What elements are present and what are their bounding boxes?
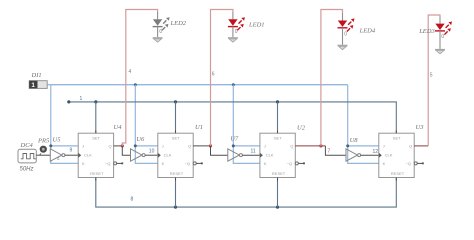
svg-text:RESET: RESET (90, 171, 104, 176)
wire: U1 Q output (net 5) (193, 145, 210, 147)
svg-text:K: K (82, 161, 85, 166)
flip-flop U1 (158, 124, 203, 181)
svg-text:CLK: CLK (164, 153, 172, 158)
svg-text:K: K (383, 161, 386, 166)
svg-text:DC4: DC4 (20, 142, 34, 149)
svg-text:50Hz: 50Hz (20, 166, 34, 172)
svg-text:CLK: CLK (266, 153, 274, 158)
svg-text:SET: SET (172, 136, 180, 141)
junction: bus A / stage-2 drop (134, 83, 137, 86)
wire: stage-4 K feed to U3 (348, 146, 379, 164)
wire: stage-1 J/K drop from bus A (50, 85, 52, 146)
wire: stage-4 J/K drop from bus A end (347, 85, 349, 146)
wire: DC4 to U5 input (net) (36, 154, 50, 156)
svg-text:~Q: ~Q (105, 161, 110, 166)
ground at LED3 (435, 50, 445, 54)
wire: stage-4 J feed to U3 (348, 145, 379, 147)
LED3 (on, red) (418, 17, 452, 49)
wire: bus A horizontal (J/K high rail) (51, 84, 348, 86)
wire: LED1 feed riser (net 6) (211, 10, 233, 146)
wire: stage-1 K feed to U4 (51, 146, 78, 164)
wire: stage-2 J feed to U1 (135, 145, 158, 147)
svg-text:0: 0 (344, 32, 347, 38)
junction: U1 Q / LED1 branch (209, 144, 212, 147)
svg-text:J: J (264, 144, 266, 149)
svg-text:J: J (162, 144, 164, 149)
wire: LED4 feed riser (321, 10, 343, 146)
svg-text:0: 0 (159, 29, 162, 35)
wire: RESET drop U2 (277, 178, 279, 208)
wire: stage-2 J/K drop from bus A (134, 85, 136, 146)
wire: U6 output to U1 CLK (net 10) (145, 154, 158, 156)
svg-text:0: 0 (441, 34, 444, 40)
wire: U2 Q step to U8 input (325, 146, 346, 155)
wire: U4 Q output (net 3) (114, 145, 123, 147)
svg-text:8: 8 (131, 197, 134, 203)
wire: SET drop to U1 (175, 102, 177, 133)
svg-text:RESET: RESET (272, 171, 286, 176)
wire: bottom RESET bus (net 8) (96, 178, 397, 208)
flip-flop U4 (78, 124, 123, 181)
junction: bottom bus / U1 RESET (174, 206, 177, 209)
svg-text:~Q: ~Q (406, 161, 411, 166)
svg-text:5: 5 (430, 73, 433, 79)
wire: stage-3 K feed to U2 (233, 146, 260, 164)
wire: DI1 output to bus A corner (net 1) (47, 84, 51, 86)
junction: stage-4 J node (346, 144, 349, 147)
svg-text:12: 12 (373, 149, 379, 155)
junction: bus B start node (67, 100, 70, 103)
svg-text:U7: U7 (230, 136, 239, 143)
svg-text:U5: U5 (53, 136, 62, 143)
svg-text:U3: U3 (416, 124, 425, 131)
svg-text:J: J (383, 144, 385, 149)
svg-text:SET: SET (274, 136, 282, 141)
svg-text:11: 11 (251, 149, 256, 155)
wire: U1 Q down-jog to U7 input (211, 146, 228, 155)
svg-text:DI1: DI1 (31, 72, 42, 79)
svg-text:LED1: LED1 (248, 21, 265, 28)
svg-text:6: 6 (212, 72, 215, 78)
wire: LED3 feed riser (428, 15, 440, 146)
svg-text:~Q: ~Q (185, 161, 190, 166)
svg-text:U1: U1 (195, 124, 203, 131)
svg-text:4: 4 (129, 69, 132, 75)
svg-text:LED4: LED4 (359, 27, 376, 34)
svg-text:Q: Q (109, 144, 112, 149)
junction: bus B / U1 SET drop (174, 100, 177, 103)
svg-text:SET: SET (92, 136, 100, 141)
wire: stage-3 J feed to U2 (233, 145, 260, 147)
svg-text:Q: Q (188, 144, 191, 149)
svg-text:J: J (82, 144, 84, 149)
LED4 (on, red) (338, 13, 376, 44)
wire: U2 Q output (net 7) (295, 145, 325, 147)
inverter U8 (346, 137, 361, 161)
wire: RESET drop U1 (175, 178, 177, 208)
svg-text:LED2: LED2 (170, 20, 187, 27)
svg-text:1: 1 (31, 82, 35, 89)
wire: stage-1 J feed to U4 (51, 145, 78, 147)
wire: U5 output to U4 CLK (net 9) (65, 154, 78, 156)
wire: U7 output to U2 CLK (net 11) (242, 154, 260, 156)
svg-text:Q: Q (290, 144, 293, 149)
wire: bus B SET rail (net 1) (69, 102, 397, 133)
junction: bus B / U2 SET drop (276, 100, 279, 103)
LED2 (off, gray) (153, 12, 187, 37)
svg-text:Q: Q (409, 144, 412, 149)
wire: U4 Q down-jog to U6 input (122, 146, 130, 155)
svg-text:U8: U8 (350, 137, 359, 144)
wire: LED2 feed riser (net 4) (122, 10, 157, 146)
wire: SET drop to U4 (95, 102, 97, 133)
svg-text:RESET: RESET (170, 171, 184, 176)
svg-text:LED3: LED3 (418, 28, 435, 35)
svg-text:CLK: CLK (385, 153, 393, 158)
junction: bottom bus / U2 RESET (276, 206, 279, 209)
svg-text:7: 7 (328, 149, 331, 155)
svg-text:SET: SET (393, 136, 401, 141)
wire: U8 output to U3 CLK (net 12) (361, 154, 379, 156)
junction: U4 Q / LED2 branch (121, 144, 124, 147)
clock source DC4 50Hz (18, 142, 36, 172)
junction: bus A / stage-3 drop (232, 83, 235, 86)
junction: stage-1 J node (49, 144, 52, 147)
svg-text:RESET: RESET (391, 171, 405, 176)
junction: stage-2 J node (134, 144, 137, 147)
ground at LED2 (153, 38, 163, 42)
svg-text:~Q: ~Q (287, 161, 292, 166)
junction: bus B / U4 SET drop (94, 100, 97, 103)
wire: SET drop to U2 (277, 102, 279, 133)
probe PR5 (37, 137, 50, 155)
svg-text:0: 0 (235, 29, 238, 35)
inverter U6 (131, 136, 146, 161)
svg-text:PR5: PR5 (37, 137, 50, 144)
svg-text:10: 10 (149, 148, 155, 154)
junction: stage-3 J node (232, 144, 235, 147)
svg-text:K: K (162, 161, 165, 166)
LED1 (on, red) (228, 12, 265, 37)
svg-text:U2: U2 (297, 125, 306, 132)
indicator DI1 (29, 72, 47, 89)
svg-text:9: 9 (70, 148, 73, 154)
wire: U3 Q output (414, 145, 428, 147)
svg-text:U4: U4 (114, 124, 123, 131)
svg-text:U6: U6 (136, 136, 145, 143)
svg-text:1: 1 (80, 96, 83, 102)
inverter U5 (50, 136, 65, 161)
junction: U2 Q / LED4 branch (319, 144, 322, 147)
svg-text:K: K (264, 161, 267, 166)
ground at LED1 (228, 38, 238, 42)
wire: stage-3 J/K drop from bus A (232, 85, 234, 146)
inverter U7 (228, 136, 243, 162)
flip-flop U2 (260, 125, 306, 181)
ground at LED4 (338, 45, 348, 49)
wire: stage-2 K feed to U1 (135, 146, 158, 164)
flip-flop U3 (379, 124, 424, 181)
svg-text:CLK: CLK (84, 153, 92, 158)
